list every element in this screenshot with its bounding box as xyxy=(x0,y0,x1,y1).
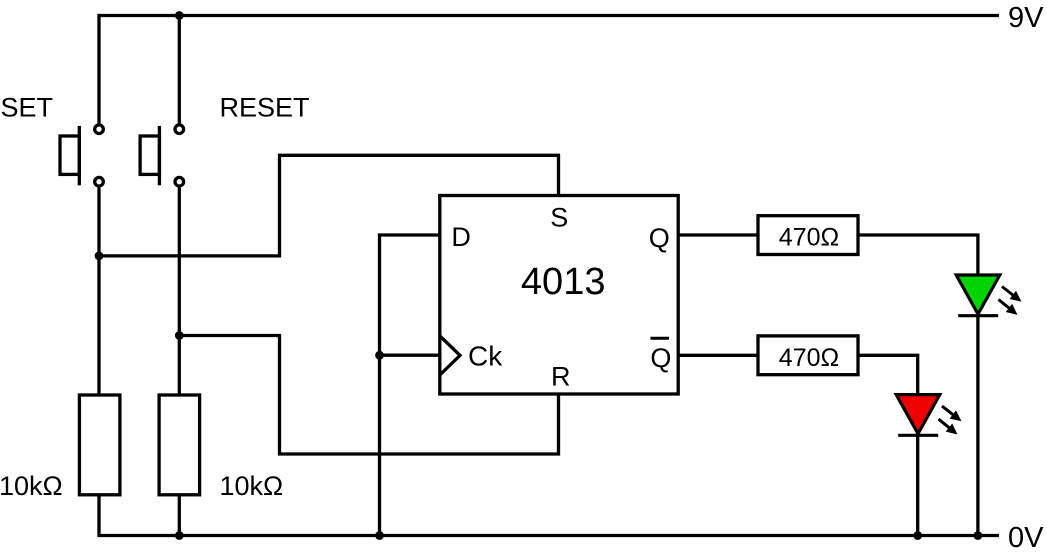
svg-text:470Ω: 470Ω xyxy=(779,344,839,372)
LED D1 green xyxy=(956,275,1021,316)
node junction SET / S wire xyxy=(95,252,104,261)
resistor R3 470 xyxy=(758,216,858,255)
resistor R1 10k xyxy=(79,395,120,495)
IC U1 4013 flip-flop box xyxy=(440,196,678,395)
svg-text:D: D xyxy=(451,222,471,252)
node junction top rail / RESET xyxy=(175,11,184,20)
wire green LED cathode to 0V rail xyxy=(976,316,979,536)
pushbutton SW1 SET xyxy=(60,125,103,186)
svg-text:4013: 4013 xyxy=(521,261,606,303)
node junction RESET / R wire xyxy=(175,331,184,340)
svg-text:Ck: Ck xyxy=(468,341,503,372)
wire R3 to green LED xyxy=(858,235,978,277)
wire R2 to 0V rail xyxy=(178,495,181,536)
svg-text:0V: 0V xyxy=(1008,522,1044,552)
wire D pin to ground line xyxy=(380,235,440,536)
wire RESET branch from top rail xyxy=(178,16,181,124)
wire Qbar pin to resistor R4 xyxy=(678,354,758,357)
svg-text:RESET: RESET xyxy=(220,93,310,123)
resistor R2 10k xyxy=(159,395,200,495)
resistor R4 470 xyxy=(758,336,858,375)
node junction green LED / 0V rail xyxy=(974,531,983,540)
svg-text:SET: SET xyxy=(1,93,54,123)
wire R4 to red LED xyxy=(858,355,918,396)
node junction Ck / ground line xyxy=(375,351,384,360)
wire SET branch from top rail xyxy=(97,14,100,124)
pushbutton SW2 RESET xyxy=(140,125,184,186)
svg-text:R: R xyxy=(551,362,571,392)
wire Ck pin stub xyxy=(380,354,440,357)
svg-text:9V: 9V xyxy=(1008,2,1044,34)
node junction ground line / 0V rail xyxy=(375,531,384,540)
svg-text:10kΩ: 10kΩ xyxy=(220,471,284,501)
wire 9V top rail xyxy=(99,14,999,17)
node junction red LED / 0V rail xyxy=(913,531,922,540)
svg-text:470Ω: 470Ω xyxy=(779,224,839,252)
wire node RESET to R pin of U1 xyxy=(179,336,558,455)
wire Q pin to resistor R3 xyxy=(678,233,758,236)
svg-text:Q: Q xyxy=(650,343,671,373)
wire R1 to 0V rail xyxy=(97,495,100,537)
svg-text:10kΩ: 10kΩ xyxy=(0,471,63,501)
wire RESET button to resistor R2 xyxy=(178,188,181,395)
wire 0V bottom rail xyxy=(99,534,999,537)
LED D2 red xyxy=(896,395,961,436)
node junction RESET branch / 0V rail xyxy=(175,531,184,540)
wire red LED cathode to 0V rail xyxy=(916,435,919,536)
svg-text:Q: Q xyxy=(649,223,670,253)
svg-text:S: S xyxy=(550,203,568,233)
wire node SET to S pin of U1 xyxy=(99,155,559,256)
wire SET button to resistor R1 xyxy=(97,188,100,395)
clock input triangle on U1 xyxy=(440,336,460,375)
